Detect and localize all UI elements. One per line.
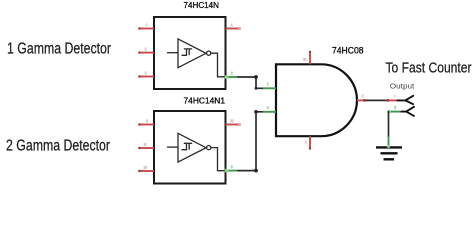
svg-text:To Fast Counter: To Fast Counter <box>386 61 472 77</box>
pin 2 number label <box>267 106 269 109</box>
wire W2 bend dot <box>254 169 258 173</box>
wire W1 lower bend dot <box>255 87 258 90</box>
inverter U2 74HC14N1 box <box>154 111 226 184</box>
svg-text:2 Gamma Detector: 2 Gamma Detector <box>6 138 110 155</box>
pin 13 of U2 (red) <box>138 170 154 172</box>
wire W2 upper bend dot <box>254 110 258 114</box>
svg-text:Output: Output <box>390 81 415 90</box>
connector J1 pin 1 leg (red) <box>387 99 398 102</box>
pin 3 number label <box>145 48 147 51</box>
pin 2 VCC of U1 (red, top right) <box>226 27 242 30</box>
J1 pin 1 number label <box>394 94 395 97</box>
pin 9 of U2 (red) <box>138 123 154 125</box>
wire W2: U2 output to AND gate input B <box>238 112 263 171</box>
svg-text:74HC08: 74HC08 <box>332 45 364 55</box>
pin 7 number label <box>305 140 307 143</box>
U3 pin 3 output (red leg) <box>357 99 366 102</box>
pin 8 number label <box>231 165 233 168</box>
pin 8 output of U2 (green leg) <box>225 169 239 173</box>
pin 14 number label <box>303 58 306 61</box>
pin 13 number label <box>144 166 147 169</box>
pin 3 of U1 (red) <box>138 51 154 53</box>
U3 pin 7 GND (red, bottom) <box>309 136 311 150</box>
pin 3 number label <box>362 94 364 97</box>
pin 9 number label <box>146 119 148 122</box>
connector J1 pin 2 symbol (arrow) <box>402 107 415 116</box>
AND gate U3 74HC08 body <box>276 64 357 136</box>
connector J1 pin 1 symbol (arrow) <box>398 96 414 104</box>
J1 pin 2 number label <box>394 106 396 109</box>
pin 4 number label <box>231 72 233 75</box>
pin 1 of U1 (red) <box>138 27 154 29</box>
pin 11 of U2 (red) <box>138 147 154 149</box>
wire W3: AND output to connector J1 pin 1 <box>366 99 387 101</box>
pin 10 number label <box>230 119 233 122</box>
U3 pin 14 VCC (red, top) <box>309 51 311 65</box>
schmitt trigger symbol inside U1 <box>167 39 225 77</box>
svg-text:1 Gamma Detector: 1 Gamma Detector <box>7 41 111 58</box>
pin 1 number label <box>267 82 268 85</box>
connector J1 pin 2 leg (green) <box>387 110 401 114</box>
pin 5 number label <box>145 71 147 74</box>
pin 1 number label <box>146 23 147 26</box>
ground junction dot (green) <box>387 145 390 148</box>
wire W1: U1 output to AND gate input A <box>238 77 263 88</box>
schmitt trigger symbol inside U2 <box>167 133 225 170</box>
pin 10 VCC of U2 (red, top right) <box>226 123 242 126</box>
wire W4: connector J1 pin 2 to ground <box>388 112 390 137</box>
svg-text:74HC14N: 74HC14N <box>184 0 220 10</box>
svg-text:74HC14N1: 74HC14N1 <box>184 96 226 106</box>
ground GND1 symbol <box>376 147 402 159</box>
wire W1 bend dot <box>254 75 258 79</box>
U3 pin 1 input A (green leg) <box>263 87 276 89</box>
pin 11 number label <box>144 143 147 146</box>
inverter U1 74HC14N box <box>154 17 226 89</box>
pin 5 of U1 (red) <box>138 75 154 77</box>
pin 2 number label <box>231 23 233 26</box>
U3 pin 2 input B (green leg) <box>263 111 276 113</box>
ground GND1 leg (green) <box>388 137 390 148</box>
pin 4 output of U1 (green leg) <box>225 75 239 79</box>
